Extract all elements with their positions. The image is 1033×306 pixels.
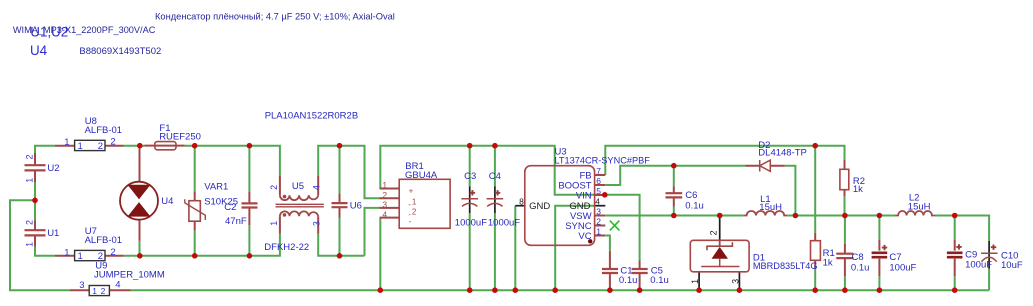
- svg-text:U5: U5: [292, 181, 304, 192]
- svg-text:1000uF: 1000uF: [455, 218, 487, 229]
- svg-text:15uH: 15uH: [759, 202, 782, 213]
- svg-text:3: 3: [730, 279, 740, 284]
- svg-text:GBU4A: GBU4A: [405, 170, 438, 181]
- svg-text:47nF: 47nF: [225, 216, 247, 227]
- svg-text:GND: GND: [569, 201, 590, 212]
- svg-text:1: 1: [78, 141, 83, 152]
- svg-text:8: 8: [519, 197, 524, 207]
- svg-text:0.1u: 0.1u: [650, 275, 669, 286]
- svg-text:ALFB-01: ALFB-01: [85, 125, 123, 136]
- svg-text:+: +: [409, 186, 414, 195]
- svg-text:-: -: [409, 217, 412, 226]
- svg-text:4: 4: [595, 197, 600, 207]
- svg-text:3: 3: [79, 280, 84, 291]
- svg-text:1: 1: [690, 279, 700, 284]
- svg-text:15uH: 15uH: [908, 201, 931, 212]
- svg-text:1: 1: [78, 251, 83, 262]
- svg-text:2: 2: [110, 137, 115, 148]
- svg-text:VAR1: VAR1: [204, 181, 228, 192]
- svg-text:1: 1: [269, 221, 279, 226]
- svg-text:2: 2: [382, 190, 387, 200]
- svg-text:U2: U2: [47, 163, 59, 174]
- svg-text:100uF: 100uF: [889, 262, 916, 273]
- svg-text:WIMA_MP3-X1_2200PF_300V/AC: WIMA_MP3-X1_2200PF_300V/AC: [13, 25, 156, 35]
- svg-text:JUMPER_10MM: JUMPER_10MM: [94, 270, 165, 281]
- svg-text:10uF: 10uF: [1001, 260, 1023, 271]
- svg-text:2: 2: [110, 247, 115, 258]
- svg-text:DL4148-TP: DL4148-TP: [758, 148, 807, 159]
- svg-text:C4: C4: [489, 171, 501, 182]
- svg-text:U6: U6: [350, 201, 362, 212]
- svg-text:3: 3: [312, 221, 322, 226]
- svg-text:C2: C2: [224, 202, 236, 213]
- svg-text:100uF: 100uF: [965, 259, 992, 270]
- svg-text:1: 1: [25, 178, 35, 183]
- svg-text:Конденсатор плёночный; 4.7 µF: Конденсатор плёночный; 4.7 µF 250 V; ±10…: [155, 12, 395, 22]
- svg-text:1: 1: [64, 137, 69, 148]
- svg-text:7: 7: [596, 166, 601, 176]
- svg-text:2: 2: [709, 230, 719, 235]
- svg-text:4: 4: [382, 209, 387, 219]
- svg-text:1: 1: [25, 242, 35, 247]
- svg-text:GND: GND: [529, 201, 550, 212]
- svg-text:RUEF250: RUEF250: [159, 132, 201, 143]
- svg-text:2: 2: [25, 154, 35, 159]
- svg-text:1000uF: 1000uF: [488, 218, 520, 229]
- svg-text:0.1u: 0.1u: [619, 275, 638, 286]
- svg-text:1: 1: [382, 180, 387, 190]
- svg-text:6: 6: [596, 176, 601, 186]
- svg-text:4: 4: [115, 280, 120, 291]
- svg-text:4: 4: [312, 185, 322, 190]
- svg-text:2: 2: [98, 141, 103, 152]
- svg-text:2: 2: [98, 251, 103, 262]
- svg-text:1: 1: [92, 286, 97, 296]
- svg-text:3: 3: [596, 206, 601, 216]
- svg-text:ALFB-01: ALFB-01: [85, 235, 123, 246]
- svg-text:1k: 1k: [853, 184, 863, 195]
- svg-text:1: 1: [596, 226, 601, 236]
- svg-text:1: 1: [64, 247, 69, 258]
- svg-text:C8: C8: [852, 252, 864, 263]
- svg-text:3: 3: [382, 200, 387, 210]
- svg-text:2: 2: [101, 286, 106, 296]
- svg-text:VC: VC: [578, 231, 591, 242]
- svg-text:LT1374CR-SYNC#PBF: LT1374CR-SYNC#PBF: [555, 156, 651, 166]
- svg-text:VIN: VIN: [576, 190, 592, 201]
- svg-text:1: 1: [412, 197, 417, 206]
- svg-text:U1: U1: [47, 228, 59, 239]
- svg-text:B88069X1493T502: B88069X1493T502: [79, 46, 161, 57]
- svg-text:MBRD835LT4G: MBRD835LT4G: [753, 261, 818, 271]
- svg-text:2: 2: [269, 185, 279, 190]
- svg-text:0.1u: 0.1u: [851, 262, 870, 273]
- svg-text:-: -: [408, 200, 411, 209]
- svg-text:U4: U4: [161, 196, 173, 207]
- svg-text:2: 2: [596, 216, 601, 226]
- svg-text:5: 5: [596, 186, 601, 196]
- svg-text:2: 2: [25, 220, 35, 225]
- svg-text:C7: C7: [889, 252, 901, 263]
- svg-text:U4: U4: [30, 43, 48, 58]
- svg-text:1k: 1k: [823, 257, 833, 268]
- svg-text:C3: C3: [464, 171, 476, 182]
- svg-text:0.1u: 0.1u: [685, 201, 704, 212]
- svg-text:2: 2: [412, 207, 417, 216]
- svg-text:DFKH2-22: DFKH2-22: [264, 242, 309, 253]
- svg-text:PLA10AN1522R0R2B: PLA10AN1522R0R2B: [265, 111, 358, 122]
